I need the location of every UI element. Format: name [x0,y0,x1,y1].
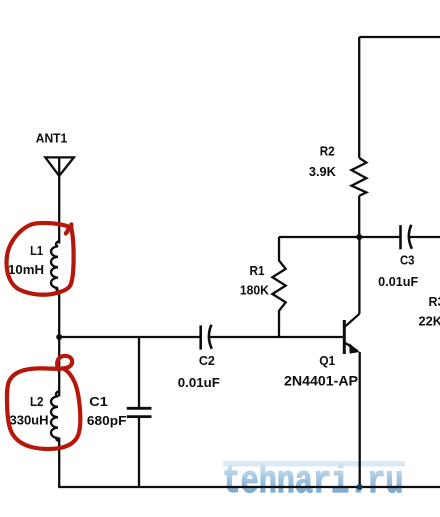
svg-text:R3: R3 [429,295,440,309]
svg-text:680pF: 680pF [87,414,127,428]
svg-text:C1: C1 [89,395,108,409]
svg-text:Q1: Q1 [319,354,335,368]
svg-text:0.01uF: 0.01uF [178,376,220,390]
svg-text:3.9K: 3.9K [309,165,336,179]
svg-text:180K: 180K [240,284,269,298]
svg-text:R2: R2 [320,144,335,158]
svg-text:22K: 22K [419,315,440,329]
svg-text:L1: L1 [30,244,43,258]
svg-text:0.01uF: 0.01uF [378,275,418,289]
svg-text:C2: C2 [199,354,215,368]
svg-text:R1: R1 [250,264,265,278]
svg-text:330uH: 330uH [10,414,49,428]
svg-text:C3: C3 [400,254,415,268]
svg-text:tehnari.ru: tehnari.ru [223,460,404,504]
svg-text:2N4401-AP: 2N4401-AP [284,373,358,389]
svg-text:10mH: 10mH [8,263,44,277]
svg-text:ANT1: ANT1 [36,131,68,145]
svg-text:L2: L2 [30,395,44,409]
